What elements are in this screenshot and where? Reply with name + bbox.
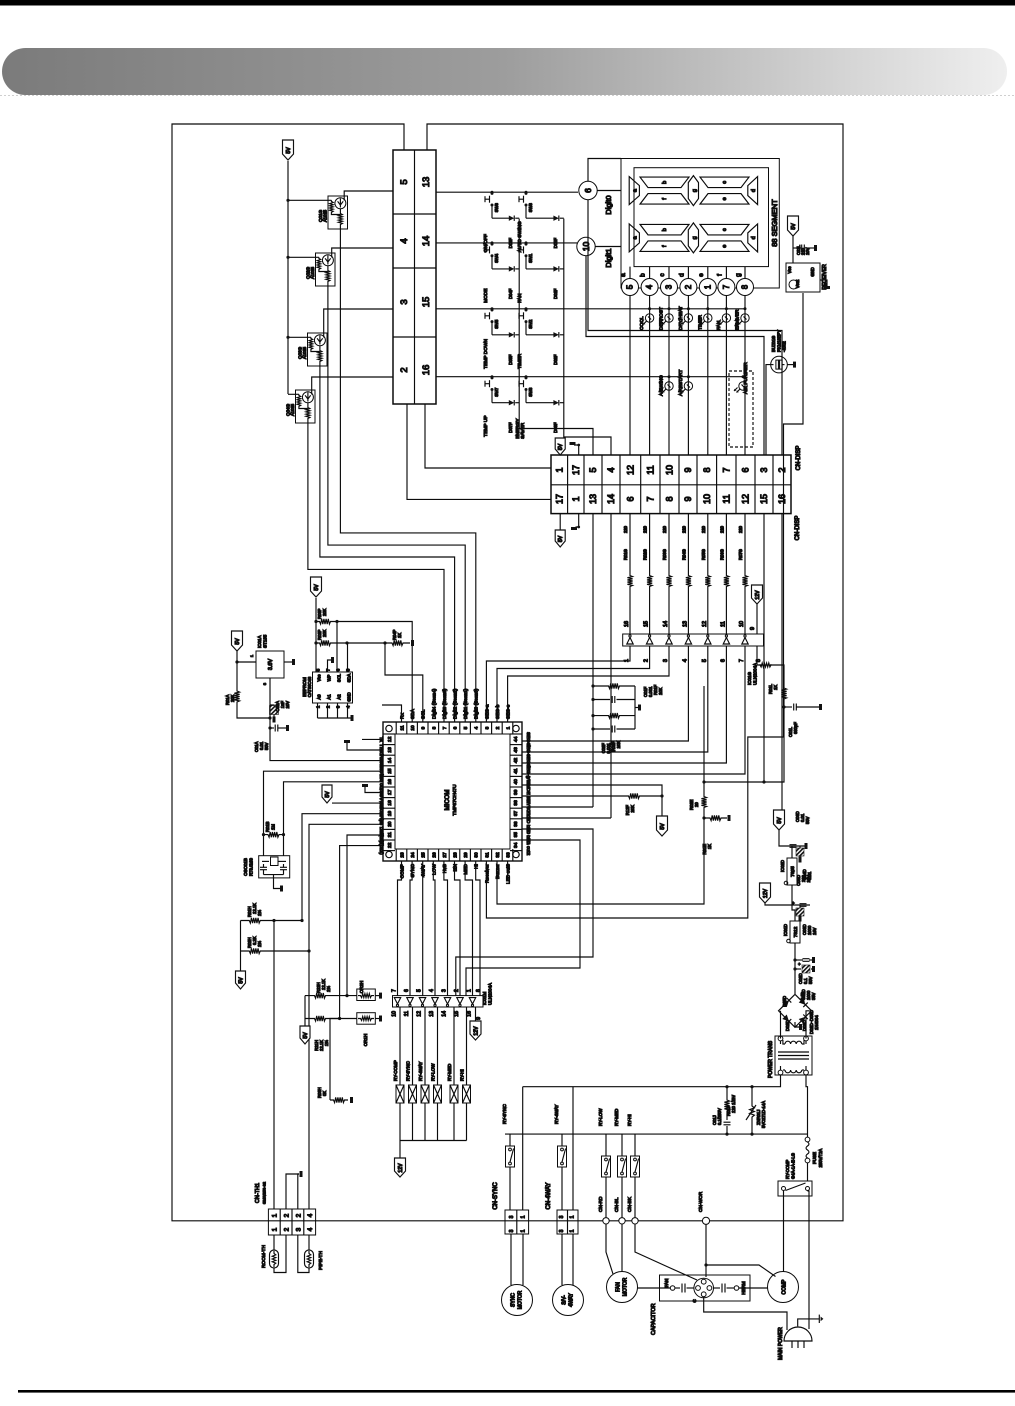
terminal bridge center stub <box>795 1022 799 1027</box>
svg-text:4: 4 <box>474 726 480 729</box>
svg-text:11: 11 <box>404 1011 410 1016</box>
svg-text:RY-4WAY: RY-4WAY <box>554 1104 559 1124</box>
wire Tx stub <box>362 738 383 740</box>
svg-text:5V: 5V <box>325 791 331 798</box>
svg-text:IC01A: IC01A <box>257 635 262 648</box>
svg-text:CAT93C46: CAT93C46 <box>307 676 312 697</box>
svg-text:6: 6 <box>625 496 635 501</box>
svg-text:680pF: 680pF <box>793 722 798 734</box>
resistor R04G 220 <box>687 514 689 548</box>
svg-text:220: 220 <box>643 525 648 533</box>
resistor R03P 20K <box>316 619 334 624</box>
svg-text:23: 23 <box>400 852 406 858</box>
relay contact RY-HI <box>634 1134 636 1156</box>
display inner box <box>634 168 769 267</box>
wires EEPROM bottom to ground stub <box>317 703 319 718</box>
svg-text:7: 7 <box>645 496 655 501</box>
switch SW7 TEMP UP <box>491 375 494 378</box>
svg-text:15: 15 <box>759 494 769 504</box>
svg-text:RY-SYNC: RY-SYNC <box>406 1060 411 1081</box>
transistor Q04G A1015 <box>296 390 316 423</box>
svg-text:e: e <box>722 197 728 200</box>
diode D07F <box>509 400 514 405</box>
svg-text:2: 2 <box>454 989 460 992</box>
switch SW8 AUTO SWING <box>525 191 528 194</box>
svg-text:10: 10 <box>702 494 712 504</box>
svg-text:D04F: D04F <box>508 288 513 299</box>
wire scan line Digit1 from Q02G <box>328 286 465 722</box>
resistor R21H 12.1K 1% <box>305 1016 335 1021</box>
LED DEFROST <box>668 307 671 310</box>
wire scan line Digit3 from Q04G <box>308 423 444 722</box>
svg-text:8: 8 <box>665 496 675 501</box>
svg-text:14: 14 <box>663 621 669 627</box>
svg-text:R01B: R01B <box>265 821 270 832</box>
svg-text:Vcc: Vcc <box>787 267 792 274</box>
wire AC neutral bus <box>505 1133 808 1135</box>
svg-text:42: 42 <box>513 758 519 764</box>
svg-text:5: 5 <box>417 989 423 992</box>
wire SDA net <box>334 622 412 723</box>
wire CN-DISP 13 key sense0 <box>592 514 594 807</box>
switch SW6 ON/OFF <box>491 191 494 194</box>
svg-text:SW6: SW6 <box>494 202 499 212</box>
svg-text:E/SAVER: E/SAVER <box>735 309 741 330</box>
resistor OR2H jumper <box>335 995 357 997</box>
svg-text:R05G: R05G <box>701 549 706 560</box>
wire relay to COMP <box>783 1191 785 1272</box>
svg-text:g: g <box>692 236 698 239</box>
wire buzzer to CN-DISP <box>766 365 771 455</box>
svg-text:3: 3 <box>295 1227 302 1231</box>
svg-text:IC01M: IC01M <box>482 991 487 1005</box>
terminal stub CN-DISP pin17 top <box>574 445 579 455</box>
svg-text:SW5: SW5 <box>494 319 499 329</box>
LED DRY/HEAT <box>687 307 690 310</box>
node CN-WOR <box>702 1217 709 1224</box>
svg-text:-4002: -4002 <box>782 341 787 352</box>
svg-text:6: 6 <box>453 726 459 729</box>
svg-text:9: 9 <box>683 467 693 472</box>
svg-text:34: 34 <box>513 842 519 848</box>
svg-text:AUTO SWING: AUTO SWING <box>517 221 523 252</box>
wire Q02G emitter <box>332 248 393 258</box>
5V flag Vvref <box>322 785 332 803</box>
wire key connector col right to CN-DISP 1 <box>425 404 551 468</box>
capacitor cluster C <box>694 1278 714 1298</box>
svg-text:FUSE: FUSE <box>812 1152 817 1164</box>
svg-text:FAN: FAN <box>517 293 523 303</box>
svg-text:3: 3 <box>665 284 674 289</box>
svg-text:35: 35 <box>513 832 519 838</box>
svg-text:SEG-c: SEG-c <box>506 704 512 719</box>
svg-text:11: 11 <box>720 621 726 627</box>
svg-text:SW2: SW2 <box>528 319 533 329</box>
svg-text:LOW: LOW <box>431 864 437 875</box>
diode D05F <box>509 332 514 337</box>
svg-text:4: 4 <box>307 1227 314 1231</box>
svg-text:5V: 5V <box>660 823 666 830</box>
svg-text:CAPACITOR: CAPACITOR <box>651 1303 657 1335</box>
diode D03F <box>553 400 558 405</box>
svg-text:D02F: D02F <box>553 354 558 365</box>
svg-text:Digit2 (Scan2): Digit2 (Scan2) <box>453 688 459 719</box>
connector CN-DISP <box>551 455 791 514</box>
resistor R01F 10K <box>593 683 635 688</box>
svg-text:0.1/250V: 0.1/250V <box>717 1108 722 1125</box>
svg-text:Digit3 (Scan3): Digit3 (Scan3) <box>442 688 448 719</box>
svg-text:16: 16 <box>387 779 393 785</box>
resistor R06G 220 <box>725 514 727 548</box>
diode D01F <box>553 266 558 271</box>
svg-text:LED out3: LED out3 <box>506 864 512 884</box>
wire node6 to display <box>597 190 621 192</box>
wire LED out3 <box>507 861 509 880</box>
svg-text:OSC01B: OSC01B <box>243 858 248 876</box>
svg-text:g: g <box>735 273 742 277</box>
svg-text:MODE: MODE <box>483 288 489 302</box>
svg-text:4: 4 <box>399 238 410 243</box>
relay contact RY-4WAY <box>561 1134 563 1146</box>
svg-text:4: 4 <box>606 467 616 472</box>
svg-text:17: 17 <box>387 789 393 795</box>
motor COMP <box>768 1272 799 1303</box>
diode D08F <box>553 215 558 220</box>
svg-text:5V: 5V <box>235 638 241 645</box>
gray gradient header pill <box>2 48 1007 95</box>
svg-text:OR1H: OR1H <box>363 1034 368 1047</box>
wire 4way col2 <box>572 1087 574 1210</box>
wire LED out1 loop to IC01M <box>466 840 580 996</box>
svg-text:3.6V: 3.6V <box>268 659 274 671</box>
svg-text:I2N: I2N <box>453 863 459 871</box>
node CN-RD <box>603 1218 609 1224</box>
svg-text:220: 220 <box>738 525 743 533</box>
svg-text:f: f <box>716 274 723 276</box>
relay contact RY-MED <box>621 1134 623 1156</box>
svg-text:CN-DISP: CN-DISP <box>796 446 802 471</box>
wire switch column 2 <box>564 219 611 455</box>
svg-text:A1015: A1015 <box>290 403 295 416</box>
svg-text:LED out2: LED out2 <box>525 835 531 855</box>
svg-text:e: e <box>722 245 728 248</box>
svg-text:22: 22 <box>387 842 393 848</box>
AIR PURIFIER dashed box <box>729 371 753 447</box>
svg-text:D05D: D05D <box>782 996 787 1007</box>
svg-text:8: 8 <box>476 989 482 992</box>
svg-text:13: 13 <box>429 1011 435 1017</box>
wire Buzzer net <box>497 818 704 904</box>
svg-text:D04D: D04D <box>800 992 805 1003</box>
svg-text:TIMER: TIMER <box>517 353 523 368</box>
LED TIMER <box>706 307 709 310</box>
svg-text:13: 13 <box>588 494 598 504</box>
7-segment Digit0 <box>629 177 639 205</box>
svg-text:CN-BL: CN-BL <box>614 1197 620 1212</box>
plug MAIN POWER <box>784 1327 812 1341</box>
svg-text:Receiver: Receiver <box>484 864 490 883</box>
svg-text:Vout: Vout <box>795 279 800 288</box>
svg-text:ULN2004A: ULN2004A <box>488 983 493 1005</box>
thermistor ROOM-TH <box>273 1235 275 1250</box>
ic IC01M ULN2004A <box>393 996 484 1007</box>
capacitor C01A 0.01 50V <box>268 726 271 729</box>
5V flag top-left <box>283 140 294 160</box>
5V flag CN-DISP top pin1 <box>555 438 565 455</box>
svg-text:DRY/HEAT: DRY/HEAT <box>678 306 684 330</box>
wire scan line Digit0 from Q01G <box>340 229 475 722</box>
svg-text:14: 14 <box>387 758 393 764</box>
resistor R22H 12.1K 1% <box>305 993 335 998</box>
ic IC01G ULN2004A buffer <box>623 634 764 646</box>
svg-text:SW3: SW3 <box>528 387 533 397</box>
wire digit0 common top loop <box>588 159 621 182</box>
svg-text:5: 5 <box>463 726 469 729</box>
bottom rule <box>18 1390 1015 1393</box>
svg-text:8: 8 <box>702 467 712 472</box>
svg-text:GND: GND <box>810 267 815 276</box>
svg-text:9: 9 <box>421 726 427 729</box>
svg-text:RT8.0MG: RT8.0MG <box>249 858 254 876</box>
svg-text:G4A-1A-E-LG: G4A-1A-E-LG <box>791 1153 796 1179</box>
transistor Q02G A1015 <box>316 253 336 286</box>
5V flag EEPROM <box>311 577 322 597</box>
svg-text:COMP: COMP <box>782 1279 788 1295</box>
svg-text:1: 1 <box>570 1215 576 1218</box>
terminal VSS stub <box>365 787 383 793</box>
svg-text:9: 9 <box>683 496 693 501</box>
svg-text:7805: 7805 <box>790 866 796 877</box>
svg-text:4WAY: 4WAY <box>569 1293 575 1307</box>
wire SCL net <box>334 642 385 644</box>
resistor R01A 20K <box>234 679 239 714</box>
svg-text:12V: 12V <box>474 1026 480 1036</box>
svg-text:Digit1 (Scan1): Digit1 (Scan1) <box>463 688 469 719</box>
wire Osc out <box>284 782 384 856</box>
svg-text:20K: 20K <box>322 629 327 637</box>
svg-text:7: 7 <box>722 284 731 289</box>
svg-text:SMW250-02: SMW250-02 <box>262 1181 267 1204</box>
svg-text:5V: 5V <box>303 1032 309 1039</box>
svg-text:PIPE-TH: PIPE-TH <box>318 1251 324 1270</box>
ground main power <box>798 1319 820 1327</box>
svg-text:IC01D: IC01D <box>783 924 788 936</box>
svg-text:4: 4 <box>429 989 435 992</box>
svg-text:CN-4WAY: CN-4WAY <box>546 1183 552 1210</box>
svg-text:ULN2004A: ULN2004A <box>753 663 758 685</box>
resistor R01B 1M <box>264 832 284 837</box>
svg-text:MOTOR: MOTOR <box>623 1277 629 1296</box>
svg-text:SCL: SCL <box>337 673 342 682</box>
svg-text:12V: 12V <box>398 1163 404 1173</box>
svg-text:RY-COMP: RY-COMP <box>785 1159 790 1179</box>
svg-text:10: 10 <box>665 465 675 475</box>
svg-text:FAN: FAN <box>616 1282 622 1292</box>
svg-text:0K: 0K <box>322 1091 327 1096</box>
wire digit0 common to CN-DISP pin2 <box>588 200 782 455</box>
resistor R04P 1K <box>385 640 410 645</box>
resistor R01E 1K <box>704 815 727 820</box>
12V flag coils <box>395 1158 406 1177</box>
relay contact RY-LOW <box>605 1134 607 1156</box>
relay coil RY-MED <box>453 1007 455 1085</box>
svg-text:50V: 50V <box>805 816 810 824</box>
capacitor C02D 0.1 50V <box>794 943 796 994</box>
svg-text:RY-MED: RY-MED <box>447 1063 452 1081</box>
svg-text:MED: MED <box>463 863 469 874</box>
wire CN-DISP 16 column <box>781 514 783 810</box>
wires SEG d/e/f/g from MICOM to IC01G <box>522 646 688 741</box>
svg-text:7: 7 <box>739 659 745 662</box>
svg-text:5V: 5V <box>239 977 245 984</box>
svg-text:2: 2 <box>284 1213 291 1217</box>
capacitor C01J 0.1 250V <box>726 1114 728 1120</box>
svg-text:16: 16 <box>467 1011 473 1017</box>
svg-text:4WAY: 4WAY <box>421 863 427 877</box>
svg-text:10: 10 <box>581 242 591 252</box>
relay coil RY-HI <box>466 1007 468 1085</box>
wire CN-TH1 pin3 stub <box>298 1174 299 1209</box>
svg-text:WP: WP <box>327 674 332 681</box>
capacitor C01D 1000 35V <box>802 965 810 973</box>
wire CN-WOR branch <box>705 1224 707 1277</box>
wire key connector col left to CN-DISP 17 <box>407 404 551 499</box>
terminal TEST stub <box>347 743 383 750</box>
svg-text:4: 4 <box>307 1213 314 1217</box>
svg-text:6: 6 <box>741 467 751 472</box>
wire Q03G emitter <box>324 309 393 338</box>
svg-text:220: 220 <box>662 525 667 533</box>
svg-text:GND: GND <box>347 692 352 701</box>
svg-text:12: 12 <box>625 465 635 475</box>
resistor R02E 20 <box>701 786 706 818</box>
LED A/SWING <box>668 375 671 378</box>
svg-text:19: 19 <box>387 811 393 817</box>
wires key filter right vertical <box>634 686 636 729</box>
svg-text:SCL: SCL <box>421 709 427 719</box>
wire scan line Digit2 from Q03G <box>320 366 455 722</box>
capacitor block CAPACITOR <box>660 1275 751 1301</box>
svg-text:1N4004: 1N4004 <box>814 1015 819 1030</box>
capacitor C22L 220 10V <box>793 247 801 249</box>
svg-text:14: 14 <box>421 236 432 247</box>
svg-text:3: 3 <box>442 989 448 992</box>
svg-text:5: 5 <box>588 467 598 472</box>
svg-text:8: 8 <box>431 726 437 729</box>
svg-text:TMP87CH47U: TMP87CH47U <box>452 784 458 816</box>
svg-text:3: 3 <box>509 1215 515 1218</box>
svg-text:35V: 35V <box>811 992 816 1000</box>
svg-text:A1015: A1015 <box>323 209 328 222</box>
motor SYNC MOTOR <box>510 1234 512 1285</box>
svg-text:D07F: D07F <box>508 422 513 433</box>
resistor R07G 220 <box>744 514 746 548</box>
wire Q04G emitter <box>312 377 393 395</box>
svg-text:31: 31 <box>484 852 490 858</box>
svg-text:D08F: D08F <box>553 238 558 249</box>
svg-text:9: 9 <box>750 627 756 630</box>
svg-text:220: 220 <box>681 525 686 533</box>
terminal buzzer stub <box>787 364 793 366</box>
svg-text:20K: 20K <box>230 694 235 702</box>
svg-text:1: 1 <box>571 496 581 501</box>
12V flag IC01M pin9 <box>470 1021 481 1040</box>
svg-text:R01G: R01G <box>623 549 628 560</box>
svg-text:1: 1 <box>506 726 512 729</box>
svg-text:RY-COMP: RY-COMP <box>393 1060 398 1081</box>
terminal EEPROM WP stub <box>328 660 332 672</box>
svg-text:38: 38 <box>513 800 519 806</box>
svg-text:SW7: SW7 <box>494 387 499 397</box>
svg-text:TIMER: TIMER <box>697 315 703 330</box>
wire CN-DISP 14 key sense1 <box>610 514 612 818</box>
svg-text:MICOM: MICOM <box>445 790 451 811</box>
svg-text:D03F: D03F <box>553 422 558 433</box>
svg-text:d: d <box>751 236 757 239</box>
wire AC leg right to fuse <box>806 1075 808 1137</box>
svg-text:CN-TH1: CN-TH1 <box>255 1183 261 1203</box>
LED COOL <box>648 307 651 310</box>
wires MICOM outputs to IC01M <box>398 861 402 996</box>
ic IC01A ST135 3.6V <box>256 651 284 678</box>
LED E/SAVER <box>744 307 747 310</box>
svg-text:13: 13 <box>682 621 688 627</box>
wire AC leg left drop <box>522 1087 524 1210</box>
svg-text:Digit1: Digit1 <box>604 248 613 267</box>
svg-text:TEMP DOWN: TEMP DOWN <box>483 339 489 369</box>
wire CN-TH1 pin1 riser <box>273 921 275 1210</box>
svg-text:SEG-b: SEG-b <box>495 704 501 719</box>
wire CN-BK to capacitor <box>635 1224 697 1280</box>
switch SW5 TEMP DOWN <box>491 307 494 310</box>
svg-text:10V: 10V <box>285 701 290 709</box>
capacitor C06D 0.01 50V <box>790 844 797 846</box>
wire Pipe TH net <box>309 824 383 1209</box>
relay coil RY-COMP <box>399 1007 401 1085</box>
svg-text:1: 1 <box>467 989 473 992</box>
svg-text:AIR PURIFIER: AIR PURIFIER <box>743 362 749 394</box>
relay coil RY-LOW <box>437 1007 439 1085</box>
svg-text:IC02D: IC02D <box>780 860 785 872</box>
transistor Q01G A1015 <box>328 196 348 229</box>
svg-text:A/SWING: A/SWING <box>659 375 665 396</box>
svg-text:37: 37 <box>513 811 519 817</box>
capacitor C01L 680pF <box>782 705 785 708</box>
svg-text:A2: A2 <box>337 694 342 700</box>
svg-text:20K: 20K <box>630 805 635 813</box>
svg-text:20: 20 <box>694 802 699 807</box>
wire buzzer node to C01L <box>704 707 784 782</box>
diode bridge D02D-D05D 1N4004 <box>779 994 812 1027</box>
wire Rx stub <box>382 705 402 722</box>
svg-text:3: 3 <box>484 726 490 729</box>
svg-text:10: 10 <box>739 621 745 627</box>
svg-text:12: 12 <box>387 736 393 742</box>
svg-text:39: 39 <box>513 789 519 795</box>
svg-text:SDA: SDA <box>347 673 352 682</box>
resistor R01H 12.1K 1% <box>241 918 270 923</box>
7-segment Digit1 <box>629 224 639 252</box>
svg-text:+: + <box>797 962 802 965</box>
wire KEY0 <box>522 806 593 808</box>
svg-text:1%: 1% <box>326 986 331 992</box>
wire KEY1 <box>522 817 611 819</box>
connector key-matrix block <box>393 150 436 404</box>
svg-text:0.01: 0.01 <box>807 871 812 880</box>
LED AIR PURIFIER <box>742 375 745 378</box>
wire reset net from IC01A <box>270 678 383 761</box>
svg-text:220: 220 <box>719 525 724 533</box>
